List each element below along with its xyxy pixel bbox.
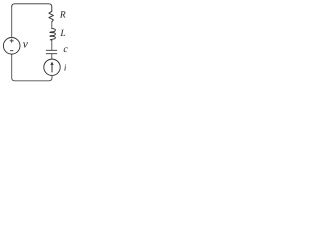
minus sign inside voltage source bbox=[10, 50, 13, 52]
inductor L bbox=[50, 29, 56, 41]
svg-text:R: R bbox=[59, 10, 66, 20]
current source arrow bbox=[51, 64, 53, 72]
wire: inductor to capacitor bbox=[51, 40, 53, 50]
voltage source V circle bbox=[3, 38, 20, 55]
wire: current source to bottom-right corner, bottom wire, bottom-left corner bbox=[12, 54, 52, 81]
capacitor C bottom plate bbox=[46, 53, 56, 55]
capacitor C top plate bbox=[46, 49, 56, 51]
svg-text:v: v bbox=[23, 39, 29, 51]
plus sign inside voltage source bbox=[10, 39, 13, 42]
wire: capacitor to current source bbox=[51, 54, 53, 59]
svg-text:L: L bbox=[59, 29, 65, 39]
resistor R bbox=[49, 11, 54, 21]
wire: resistor to inductor bbox=[51, 22, 53, 29]
wire: voltage source to top-left bbox=[11, 7, 13, 38]
current source I circle bbox=[44, 59, 60, 75]
wire: top-left corner, top wire, top-right corner, down to resistor bbox=[12, 4, 52, 12]
svg-text:i: i bbox=[64, 63, 67, 73]
svg-text:c: c bbox=[63, 44, 68, 55]
